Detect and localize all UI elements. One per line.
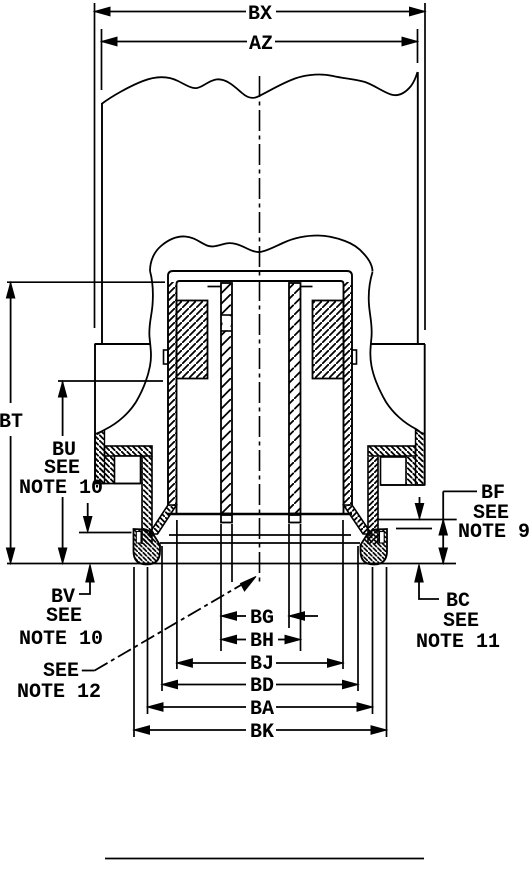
housing upper right wall [417,72,419,344]
grommet right block [313,301,344,379]
housing right break line [369,272,423,435]
extension line pin left outer [220,524,222,651]
dimension BV leader [19,565,103,652]
dimension AZ [102,29,418,90]
dimension BF leader and arrows [439,482,530,564]
flange left groove [115,456,141,484]
flange right web [368,446,416,456]
flange left bottom edge [95,483,141,485]
dimension BG [221,607,318,630]
note 12 leader with arrow to centerline [17,577,256,705]
dimension BT [0,283,23,564]
right foot [361,529,388,565]
svg-text:SEE: SEE [443,610,479,633]
centerline [259,76,261,585]
dimension BC leader [415,565,500,655]
svg-text:BG: BG [250,607,274,630]
svg-text:BH: BH [250,630,274,653]
svg-text:BX: BX [248,3,272,26]
svg-text:NOTE 10: NOTE 10 [19,477,103,500]
svg-text:BA: BA [250,698,274,721]
svg-text:BJ: BJ [250,653,274,676]
svg-text:NOTE 11: NOTE 11 [416,631,500,654]
grommet bore shoulder right [301,286,313,288]
extension line pin right outer [300,524,302,651]
dimension BD [162,675,358,698]
shell bottom rim upper line [169,534,351,536]
extension line BK left [133,567,135,737]
flange left web [105,446,153,456]
bottom rule line [105,858,424,860]
housing step shoulder right [371,343,425,345]
svg-text:SEE: SEE [43,660,79,683]
extension line BA right [372,567,374,714]
extension line BK right [386,567,388,737]
housing lower left outer wall [94,344,96,484]
dimension BJ [177,653,343,676]
dimension BU [19,382,103,564]
svg-text:NOTE 10: NOTE 10 [19,628,103,651]
svg-text:SEE: SEE [46,605,82,628]
extension line pin right left-edge [288,524,290,628]
cap right tab [352,350,357,364]
contact pin left [221,283,232,514]
pin stub left [221,515,232,523]
left foot [134,529,161,565]
cap left wall diagonal cut [149,505,177,534]
housing step shoulder left [95,343,151,345]
flange left wall hatched [95,430,115,484]
grommet left block [177,301,208,379]
dimension BK [134,721,387,744]
housing upper left wall [101,103,103,344]
cap left wall hatch [168,282,177,506]
extension line BJ right [342,520,344,669]
housing left break line [97,271,153,435]
insert bottom face [167,513,352,516]
extension line BD left [161,546,163,691]
BT top extension line [7,281,165,283]
flange right bottom edge [381,484,425,486]
contact pin right [289,283,301,514]
right foot top extension line [396,528,432,530]
extension line for BU top [58,380,163,382]
right skirt step extension line [378,519,457,521]
bottom plane line [7,563,456,565]
housing lower right outer wall [424,344,426,485]
left foot top arrow [84,503,92,532]
dimension BX top [95,3,426,330]
dimension BA [148,698,373,721]
pin stub right [289,515,301,523]
dimension BH [221,630,301,653]
extension line BA left [147,567,149,714]
flange left skirt [142,456,152,544]
cap right wall hatch [344,282,352,506]
grommet wavy top [150,236,373,272]
flange right skirt [368,457,378,544]
flange right groove [381,457,407,485]
cap left tab [164,350,169,364]
extension line pin left inner (short) [231,524,233,582]
retaining cap inner outline [177,281,344,513]
right foot top arrow [415,497,423,519]
retaining cap outer outline [168,271,352,505]
flange right wall hatched [406,430,425,485]
svg-text:BD: BD [250,675,274,698]
housing top break wave [102,72,418,104]
svg-text:BT: BT [0,411,23,434]
svg-text:BK: BK [250,721,274,744]
extension line BD right [357,546,359,691]
shell bottom rim lower line [160,542,360,544]
left foot top extension line [79,532,132,534]
cap right wall diagonal cut [344,505,372,534]
svg-text:AZ: AZ [249,33,273,56]
svg-text:NOTE 9: NOTE 9 [458,521,530,544]
grommet bore shoulder left [208,286,222,288]
extension line BJ left [176,520,178,669]
svg-text:NOTE 12: NOTE 12 [17,681,101,704]
